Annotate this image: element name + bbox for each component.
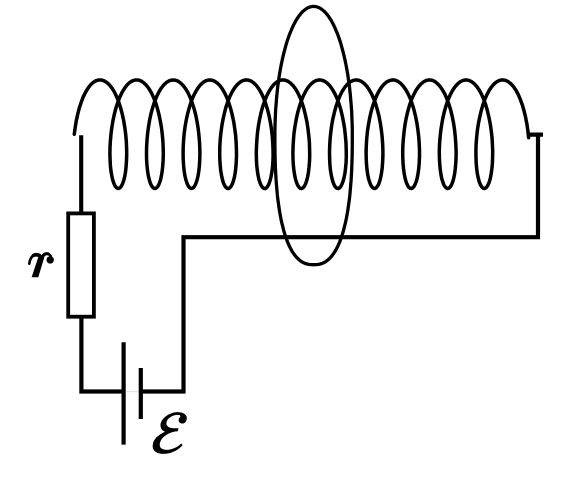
battery plate long (negative) bbox=[121, 342, 125, 444]
label r bbox=[29, 254, 54, 278]
battery cell gap shading bbox=[124, 391, 141, 393]
label EMF script E bbox=[153, 413, 187, 454]
battery plate short (positive) bbox=[139, 368, 143, 419]
wire (battery to right side, up and across to coil right lead) bbox=[141, 135, 543, 392]
wire (resistor bottom to battery) bbox=[79, 317, 123, 394]
wire (coil left lead down to resistor) bbox=[79, 135, 83, 214]
inductor L1 (solenoid coil) bbox=[74, 80, 528, 189]
flux loop (oval around solenoid) bbox=[275, 6, 352, 264]
resistor r (box) bbox=[68, 213, 94, 316]
